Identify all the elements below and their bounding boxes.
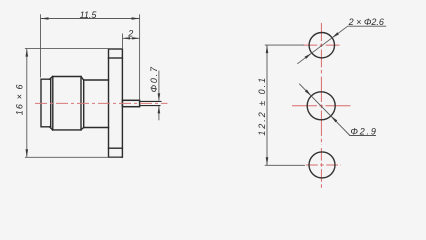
svg-text:11.5: 11.5	[80, 10, 98, 20]
svg-text:Φ2.9: Φ2.9	[350, 126, 377, 136]
svg-text:2 × Φ2.6: 2 × Φ2.6	[348, 17, 384, 27]
svg-text:2: 2	[127, 29, 133, 39]
svg-text:16 × 6: 16 × 6	[15, 83, 25, 115]
svg-text:12.2 ± 0.1: 12.2 ± 0.1	[257, 76, 267, 136]
svg-text:Φ0.7: Φ0.7	[149, 65, 159, 92]
